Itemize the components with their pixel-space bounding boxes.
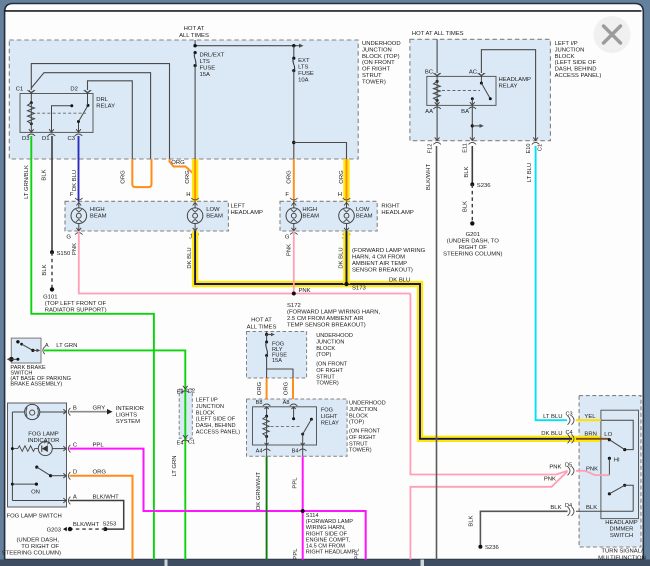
wire: BC feed from hot at all times	[436, 39, 438, 73]
wire: dashed BLK S236 to G201	[463, 184, 473, 223]
label: LEFT I/P JUNCTION BLOCK	[555, 41, 602, 79]
wire: ORG fuse to fog relay B8	[257, 378, 267, 399]
pin C	[63, 443, 104, 453]
svg-text:D4: D4	[565, 503, 572, 509]
svg-text:LT GRN/BLK: LT GRN/BLK	[24, 165, 30, 199]
park brake switch box	[11, 338, 41, 363]
label: PARK BRAKE SWITCH	[10, 365, 71, 388]
pin H arc (right low)	[343, 198, 351, 206]
svg-text:E11: E11	[463, 143, 469, 153]
svg-text:BLK: BLK	[463, 201, 469, 212]
pin G arc (right high)	[285, 228, 298, 241]
svg-text:(ON FRONT: (ON FRONT	[316, 362, 348, 368]
fog lamp indicator LED + resistor	[11, 441, 66, 456]
dimmer LO blade	[609, 440, 624, 450]
svg-text:S114: S114	[306, 513, 319, 519]
svg-text:JUNCTION: JUNCTION	[555, 47, 585, 53]
svg-text:LTS: LTS	[200, 59, 210, 65]
pin BA	[461, 102, 476, 115]
svg-text:A: A	[73, 495, 77, 501]
headlamp relay box	[427, 76, 496, 105]
svg-text:2.5 CM FROM AMBIENT AIR: 2.5 CM FROM AMBIENT AIR	[287, 316, 363, 322]
svg-text:TURN SIGNAL/: TURN SIGNAL/	[601, 549, 643, 555]
svg-text:BLK/WHT: BLK/WHT	[93, 495, 120, 501]
ground G201	[443, 221, 502, 257]
wire: AA down to F12	[436, 105, 438, 140]
svg-text:G101: G101	[43, 295, 57, 301]
svg-text:E4: E4	[177, 440, 184, 446]
fog switch A row	[12, 500, 65, 502]
svg-text:ALL TIMES: ALL TIMES	[179, 33, 209, 39]
label: LEFT HEADLAMP	[231, 204, 263, 217]
connector E8/C2	[177, 386, 196, 396]
svg-text:B: B	[73, 406, 77, 412]
wire: PPL fog switch C to S114 bus	[70, 449, 366, 560]
svg-text:PPL: PPL	[293, 477, 299, 489]
svg-text:DRL/EXT: DRL/EXT	[200, 53, 225, 59]
svg-text:DK BLU: DK BLU	[339, 247, 345, 268]
svg-text:BEAM: BEAM	[356, 214, 373, 220]
svg-text:G: G	[66, 235, 71, 241]
svg-text:BEAM: BEAM	[206, 214, 223, 220]
svg-text:(TOP): (TOP)	[316, 352, 331, 358]
svg-text:E10: E10	[526, 144, 532, 154]
svg-text:BLK: BLK	[586, 505, 597, 511]
dimmer HI contact	[608, 457, 620, 475]
svg-text:ENGINE COMPT,: ENGINE COMPT,	[306, 537, 351, 543]
svg-text:STEERING COLUMN): STEERING COLUMN)	[443, 252, 502, 258]
splice S236	[470, 182, 491, 188]
label: UNDERHOOD JUNCTION BLOCK (relay)	[349, 401, 386, 454]
svg-text:OF RIGHT: OF RIGHT	[349, 435, 376, 441]
pin C1	[16, 87, 35, 94]
svg-text:EXT: EXT	[298, 58, 310, 64]
svg-text:ORG: ORG	[287, 170, 293, 184]
svg-text:BLK/WHT: BLK/WHT	[73, 522, 100, 528]
svg-text:FUSE: FUSE	[200, 66, 216, 72]
svg-text:BLK: BLK	[469, 515, 475, 526]
svg-text:JUNCTION: JUNCTION	[196, 404, 224, 410]
fog switch blade	[35, 466, 65, 478]
wire: PNK from below joining dimmer D5	[410, 471, 567, 559]
svg-text:SWITCH: SWITCH	[610, 533, 633, 539]
svg-text:ON: ON	[31, 490, 40, 496]
svg-text:PNK: PNK	[544, 477, 556, 483]
svg-text:(FORWARD LAMP WIRING HARN,: (FORWARD LAMP WIRING HARN,	[287, 310, 381, 316]
wire: BLK from D4 left and down to S236	[469, 511, 568, 546]
wire: DK BLU from DRL relay C3 to left high beam F	[70, 136, 79, 201]
splice S253	[103, 522, 117, 532]
svg-text:HARN, 4 CM FROM: HARN, 4 CM FROM	[352, 255, 405, 261]
svg-text:S150: S150	[57, 251, 71, 257]
svg-text:H: H	[186, 192, 190, 198]
note: S114 forward lamp wiring harn	[306, 513, 356, 556]
pin B4	[292, 445, 307, 456]
wire: fog fuse output with branch	[267, 356, 293, 379]
left I/P junction block small dashed box (park brake circuit)	[179, 389, 192, 438]
svg-text:HEADLAMP: HEADLAMP	[605, 520, 637, 526]
wire: ORG U-loop below junction block	[121, 159, 152, 187]
svg-text:AC: AC	[469, 70, 478, 76]
svg-text:DRL: DRL	[96, 97, 109, 103]
wire: D2 run down to U-loop	[88, 81, 133, 159]
left headlamp low beam bulb	[187, 201, 223, 231]
pin D1	[42, 129, 55, 142]
pin J arc (left low)	[189, 228, 199, 241]
svg-text:(TOP LEFT FRONT OF: (TOP LEFT FRONT OF	[45, 301, 107, 307]
svg-text:SYSTEM: SYSTEM	[116, 419, 140, 425]
fog light relay junction block dashed box	[247, 399, 348, 456]
pin G arc (left high)	[66, 228, 82, 241]
svg-text:G: G	[285, 235, 290, 241]
connector E10/C1	[526, 137, 544, 153]
fog switch illumination bulb	[12, 404, 65, 419]
wire: BLK/WHT fog switch A to S253	[70, 501, 124, 530]
wire: dashed BLK S150 to G101	[42, 252, 52, 289]
label: RIGHT HEADLAMP	[381, 204, 413, 217]
svg-text:D5: D5	[565, 463, 572, 469]
fog lamp switch box	[8, 403, 67, 507]
svg-text:HIGH: HIGH	[302, 207, 317, 213]
svg-text:BLK/WHT: BLK/WHT	[426, 164, 432, 191]
svg-text:C3: C3	[566, 412, 573, 418]
wire: PNK left high beam G to pink bus	[72, 231, 410, 294]
left I/P junction block dashed box	[410, 39, 551, 140]
fog switch ON contact	[11, 483, 40, 496]
svg-text:ORG: ORG	[185, 170, 191, 184]
pin B	[63, 406, 105, 416]
DRL relay coil	[28, 94, 35, 133]
svg-text:JUNCTION: JUNCTION	[349, 407, 377, 413]
svg-text:BA: BA	[461, 109, 469, 115]
svg-text:(LEFT SIDE OF: (LEFT SIDE OF	[196, 417, 236, 423]
svg-text:(LEFT SIDE OF: (LEFT SIDE OF	[555, 60, 597, 66]
svg-text:(FORWARD LAMP: (FORWARD LAMP	[306, 519, 354, 525]
label: LEFT I/P JUNCTION BLOCK (small)	[196, 398, 240, 436]
svg-text:ALL TIMES: ALL TIMES	[247, 325, 277, 331]
wire: fuse 15A output down inside box	[194, 66, 196, 159]
svg-text:LOW: LOW	[356, 207, 370, 213]
connector F12	[428, 137, 441, 153]
svg-text:ORG: ORG	[121, 170, 127, 184]
svg-text:DASH, BEHIND: DASH, BEHIND	[555, 67, 597, 73]
svg-text:C1: C1	[538, 144, 544, 151]
headlamp relay coil	[434, 76, 441, 105]
wire: C1 to fused feed (top nested run)	[31, 64, 169, 159]
svg-text:UNDERHOOD: UNDERHOOD	[316, 333, 353, 339]
label: UNDERHOOD JUNCTION BLOCK (fuse)	[316, 333, 353, 387]
fog relay switch blade	[292, 407, 313, 445]
wire: AC up over to E10	[481, 50, 535, 141]
svg-text:D2: D2	[70, 87, 78, 93]
svg-text:BLK: BLK	[464, 166, 470, 177]
svg-text:TOWER): TOWER)	[362, 79, 386, 85]
svg-text:HOT AT: HOT AT	[251, 318, 272, 324]
svg-text:E8: E8	[177, 390, 184, 396]
svg-text:BC: BC	[425, 70, 434, 76]
svg-text:ORG: ORG	[257, 381, 263, 395]
svg-text:JUNCTION: JUNCTION	[362, 47, 392, 53]
svg-text:ORG: ORG	[339, 170, 345, 184]
svg-text:S173: S173	[352, 286, 366, 292]
svg-text:BLK: BLK	[42, 169, 48, 180]
splice S150	[50, 250, 71, 256]
svg-text:LIGHT: LIGHT	[321, 414, 338, 420]
connector E4/C1	[177, 435, 196, 446]
svg-text:(FORWARD LAMP WIRING: (FORWARD LAMP WIRING	[352, 248, 426, 254]
svg-text:BLK: BLK	[550, 505, 561, 511]
svg-text:(ON FRONT: (ON FRONT	[349, 429, 381, 435]
DRL relay box	[20, 94, 93, 133]
svg-text:B8: B8	[256, 400, 263, 406]
svg-text:BLOCK: BLOCK	[349, 413, 368, 419]
wire: PNK D5 into switch	[576, 471, 609, 475]
svg-text:BLOCK: BLOCK	[316, 346, 335, 352]
svg-text:S236: S236	[485, 545, 499, 551]
svg-text:PNK: PNK	[549, 464, 561, 470]
svg-text:BRAKE ASSEMBLY): BRAKE ASSEMBLY)	[10, 382, 62, 388]
svg-text:HEADLAMP: HEADLAMP	[231, 210, 263, 216]
svg-text:LT BLU: LT BLU	[527, 163, 533, 182]
pin AC	[469, 70, 485, 77]
wire: ORG/YEL highlighted feed to left low beam H	[185, 159, 195, 201]
svg-text:STEERING COLUMN): STEERING COLUMN)	[2, 551, 61, 557]
svg-text:LO: LO	[604, 432, 612, 438]
top black rule	[5, 10, 642, 12]
svg-text:J: J	[189, 235, 192, 241]
label: DRL RELAY	[96, 97, 115, 110]
svg-text:PNK: PNK	[299, 288, 311, 294]
svg-text:10A: 10A	[298, 78, 309, 84]
svg-text:PPL: PPL	[293, 548, 299, 560]
wire: BLK from DRL relay D1 to S150	[42, 136, 53, 252]
wire: ORG/YEL highlighted feed to right low beam H	[338, 159, 347, 201]
wire: ORG fog switch D down off page	[70, 476, 133, 560]
svg-text:RELAY: RELAY	[321, 421, 339, 427]
headlamp dimmer switch box	[601, 410, 639, 518]
wire: BLK from E11 to S236	[464, 146, 472, 184]
svg-text:BLOCK (TOP): BLOCK (TOP)	[362, 54, 400, 60]
wire: ORG feed to right high beam F	[285, 159, 293, 201]
svg-text:LEFT I/P: LEFT I/P	[555, 41, 578, 47]
svg-text:BLK: BLK	[42, 264, 48, 275]
wire: PNK right high beam G drop to S172	[287, 231, 294, 294]
svg-text:15A: 15A	[272, 358, 282, 364]
svg-text:RIGHT SIDE OF: RIGHT SIDE OF	[306, 531, 348, 537]
park brake switch blade	[16, 340, 40, 352]
wire: DK BLU/YEL right low beam J drop to S173	[339, 231, 347, 284]
svg-text:RELAY: RELAY	[499, 84, 518, 90]
underhood junction block (top) dashed box	[9, 40, 358, 159]
svg-text:F: F	[285, 192, 289, 198]
svg-text:B4: B4	[292, 449, 299, 455]
bottom dark bar	[0, 560, 650, 566]
wire: dashed BLK/WHT S253 to G203	[71, 522, 105, 529]
svg-text:A4: A4	[256, 449, 263, 455]
wire: fuse supply bus with arrow	[193, 44, 303, 48]
label: FOG LAMP SWITCH	[7, 514, 62, 520]
svg-text:DIMMER: DIMMER	[610, 527, 634, 533]
left headlamp dashed box	[65, 201, 228, 231]
pin A (fog switch)	[63, 495, 119, 505]
svg-text:14.5 CM FROM: 14.5 CM FROM	[306, 544, 346, 550]
pin F arc (right high)	[290, 198, 298, 206]
fog switch internal rail	[11, 412, 13, 501]
svg-text:ORG: ORG	[284, 381, 290, 395]
svg-text:LT GRN: LT GRN	[172, 455, 178, 476]
ground G203	[2, 527, 72, 557]
svg-text:G201: G201	[466, 232, 480, 238]
wire: BA down to E11 with branch arrow	[471, 105, 484, 140]
wire: fuse 10A output down with branch	[292, 71, 346, 159]
svg-text:JUNCTION: JUNCTION	[316, 339, 344, 345]
svg-text:DK GRN/WHT: DK GRN/WHT	[256, 472, 262, 510]
pin H arc (left low)	[191, 198, 199, 206]
label: FOG LIGHT RELAY	[321, 408, 339, 427]
fog relay dashed link	[271, 426, 302, 428]
svg-text:HI: HI	[614, 458, 620, 464]
wire: stub from box top to fuse bus	[194, 40, 196, 46]
svg-text:F12: F12	[428, 144, 434, 154]
DRL relay D1 contact	[52, 104, 74, 132]
park brake ground stub	[7, 357, 20, 362]
svg-text:C2: C2	[188, 389, 195, 395]
svg-text:BLOCK: BLOCK	[555, 54, 575, 60]
turn signal / multifunction switch dashed box	[579, 396, 641, 547]
svg-text:RADIATOR SUPPORT): RADIATOR SUPPORT)	[45, 308, 107, 314]
svg-text:PNK: PNK	[287, 244, 293, 256]
label: FOG LAMP INDICATOR	[28, 432, 60, 445]
wire: DK GRN/WHT from fog relay A4 down off page	[256, 456, 267, 559]
svg-text:D: D	[73, 470, 77, 476]
svg-text:DK BLU: DK BLU	[187, 247, 193, 268]
right headlamp low beam bulb	[339, 201, 373, 231]
svg-text:PNK: PNK	[72, 243, 78, 255]
svg-text:G203: G203	[47, 528, 62, 534]
svg-text:SENSOR BREAKOUT): SENSOR BREAKOUT)	[352, 268, 413, 274]
wire: DK BLU/YEL highlighted low beam bus (left J to dimmer C4)	[187, 231, 609, 439]
pin AA	[425, 102, 441, 115]
splice S173	[344, 278, 410, 292]
svg-text:HEADLAMP: HEADLAMP	[381, 210, 413, 216]
svg-text:TO RIGHT OF: TO RIGHT OF	[21, 544, 59, 550]
fuse DRL/EXT LTS 15A	[194, 51, 225, 78]
svg-text:HOT AT: HOT AT	[184, 26, 205, 32]
pin F arc (left high)	[75, 198, 83, 206]
wire: BLK D4 into switch	[576, 510, 633, 512]
connector D5	[544, 463, 598, 483]
svg-text:RIGHT OF: RIGHT OF	[459, 245, 487, 251]
pin D3	[22, 129, 35, 142]
svg-text:C3: C3	[67, 136, 75, 142]
svg-text:F: F	[70, 192, 74, 198]
connector C3	[543, 412, 596, 425]
wire: BRN C4 to LO contact	[576, 432, 613, 441]
svg-text:C1: C1	[188, 439, 195, 445]
wire: PNK bus drop to dimmer D5	[410, 294, 567, 475]
svg-text:GRY: GRY	[93, 406, 106, 412]
label: HOT AT ALL TIMES (left)	[179, 26, 209, 39]
svg-text:S172: S172	[287, 303, 301, 309]
svg-text:INDICATOR: INDICATOR	[28, 438, 60, 444]
svg-text:LT BLU: LT BLU	[543, 414, 562, 420]
wire: GRY to interior lights system	[70, 406, 144, 425]
pin D	[63, 470, 106, 480]
svg-text:STRUT: STRUT	[349, 441, 368, 447]
svg-text:(ON FRONT: (ON FRONT	[362, 60, 395, 66]
svg-text:ACCESS PANEL): ACCESS PANEL)	[555, 73, 602, 79]
svg-text:LTS: LTS	[298, 65, 308, 71]
svg-text:HOT AT ALL TIMES: HOT AT ALL TIMES	[412, 31, 464, 37]
svg-text:UNDERHOOD: UNDERHOOD	[362, 41, 401, 47]
svg-text:RIGHT HEADLAMP: RIGHT HEADLAMP	[306, 550, 356, 556]
connector E11	[463, 137, 476, 152]
note: forward lamp wiring harn 4cm	[352, 248, 426, 274]
left headlamp high beam bulb	[71, 201, 107, 231]
headlamp relay switch blade	[471, 76, 492, 105]
svg-text:HIGH: HIGH	[90, 207, 105, 213]
svg-text:A: A	[45, 343, 49, 349]
svg-text:DK BLU: DK BLU	[389, 278, 410, 284]
label: HEADLAMP RELAY	[499, 77, 531, 90]
svg-text:LEFT: LEFT	[231, 204, 246, 210]
svg-text:OF RIGHT: OF RIGHT	[362, 67, 391, 73]
svg-text:(UNDER DASH, TO: (UNDER DASH, TO	[447, 239, 500, 245]
svg-text:AA: AA	[425, 109, 433, 115]
fog light relay box	[253, 407, 317, 445]
pin J arc (right low)	[342, 228, 350, 241]
svg-text:AMBIENT AIR TEMP: AMBIENT AIR TEMP	[352, 261, 407, 267]
right headlamp dashed box	[280, 201, 377, 231]
svg-text:TOWER): TOWER)	[349, 448, 372, 454]
svg-text:BEAM: BEAM	[90, 214, 107, 220]
svg-text:ORG: ORG	[171, 160, 185, 166]
ground G101	[43, 287, 106, 313]
svg-text:INTERIOR: INTERIOR	[116, 406, 144, 412]
svg-text:STRUT: STRUT	[316, 374, 335, 380]
label: UNDERHOOD JUNCTION BLOCK (TOP)	[362, 41, 401, 85]
svg-text:LT GRN: LT GRN	[56, 343, 77, 349]
wire: BLK/WHT from F12 down off page	[426, 146, 437, 560]
svg-text:UNDERHOOD: UNDERHOOD	[349, 401, 386, 407]
label: HOT AT ALL TIMES (right)	[412, 31, 464, 37]
wire: C1 diagonal to second run to U-loop	[31, 73, 150, 159]
label: HEADLAMP DIMMER SWITCH	[605, 520, 637, 539]
svg-text:ORG: ORG	[93, 470, 107, 476]
DRL relay dashed link	[37, 112, 86, 114]
note: S172 forward lamp wiring harn 2.5cm	[287, 303, 381, 329]
svg-text:DK BLU: DK BLU	[541, 431, 562, 437]
svg-text:FOG LAMP SWITCH: FOG LAMP SWITCH	[7, 514, 62, 520]
pin D2	[70, 87, 91, 94]
wire: PPL from fog relay B4 to S114	[293, 456, 303, 559]
pin A8	[283, 400, 298, 406]
label: TURN SIGNAL / MULTIFUNCTION	[598, 549, 646, 562]
svg-text:LIGHTS: LIGHTS	[116, 413, 137, 419]
close button	[594, 16, 631, 53]
svg-text:D3: D3	[22, 136, 30, 142]
svg-text:TOWER): TOWER)	[316, 381, 339, 387]
svg-text:LEFT I/P: LEFT I/P	[196, 398, 218, 404]
svg-text:(TOP): (TOP)	[349, 420, 364, 426]
wire: feed into fog fuse box with arrow	[265, 332, 275, 337]
svg-text:BEAM: BEAM	[302, 214, 319, 220]
svg-text:STRUT: STRUT	[362, 73, 382, 79]
right headlamp high beam bulb	[286, 201, 319, 231]
DRL relay switch blade C3-D2	[77, 94, 90, 133]
svg-text:BLOCK: BLOCK	[196, 410, 215, 416]
splice S172	[292, 288, 311, 296]
